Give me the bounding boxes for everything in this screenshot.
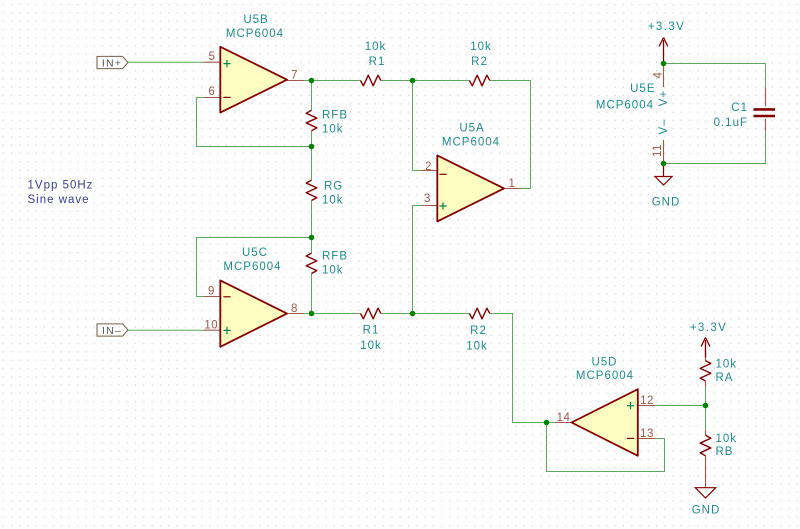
U5B plus input mark <box>223 60 230 67</box>
wire R1b to node B <box>381 313 413 315</box>
wire node A to R2 <box>413 80 470 82</box>
wire U5D feedback pin13 <box>547 423 665 472</box>
wire node8 to R1b <box>304 313 361 315</box>
wire node B to R2b <box>413 313 470 315</box>
svg-text:1Vpp 50Hz: 1Vpp 50Hz <box>28 180 94 192</box>
U5A minus input mark <box>439 173 446 175</box>
svg-text:U5D: U5D <box>591 357 617 369</box>
junction node7 <box>309 78 315 84</box>
RB bottom lead to GND <box>705 456 707 488</box>
power flag +3.3V at U5E <box>659 38 668 64</box>
resistor RFB lower <box>306 253 317 273</box>
resistor RB <box>700 435 711 455</box>
power flag +3.3V at RA <box>701 338 710 358</box>
ground symbol at U5E <box>655 164 672 186</box>
svg-text:R2: R2 <box>470 325 487 337</box>
junction RA-RB node <box>703 403 709 409</box>
wire U5D pin14 to node <box>547 422 556 424</box>
pin 3 stub <box>421 205 437 207</box>
svg-text:RG: RG <box>324 181 343 193</box>
svg-text:10k: 10k <box>360 340 382 352</box>
U5A plus input mark <box>439 202 446 209</box>
resistor RFB upper <box>306 110 317 130</box>
svg-text:IN+: IN+ <box>102 57 122 69</box>
svg-text:11: 11 <box>652 144 664 157</box>
wire U5A pin3 to node B <box>413 206 422 314</box>
junction V- node <box>661 161 667 167</box>
svg-text:10k: 10k <box>466 341 488 353</box>
pin 13 stub <box>638 438 655 440</box>
capacitor C1 <box>754 109 776 116</box>
junction node8 <box>309 311 315 317</box>
svg-text:R1: R1 <box>363 325 380 337</box>
junction U5D input node <box>544 420 550 426</box>
junction V+ node <box>661 61 667 67</box>
svg-text:10k: 10k <box>470 41 492 53</box>
svg-text:RB: RB <box>716 446 734 458</box>
wire U5D pin12 to RA RB node <box>655 405 706 407</box>
svg-text:6: 6 <box>208 86 215 98</box>
pin 1 stub <box>504 188 521 190</box>
svg-text:5: 5 <box>208 51 215 63</box>
svg-text:U5A: U5A <box>459 123 484 135</box>
junction node A <box>410 78 416 84</box>
wire C1 to V- loop <box>664 132 766 164</box>
svg-text:GND: GND <box>652 197 681 209</box>
svg-text:10k: 10k <box>716 433 738 445</box>
svg-text:10k: 10k <box>322 265 344 277</box>
svg-text:MCP6004: MCP6004 <box>576 370 634 382</box>
pin 2 stub <box>421 170 437 172</box>
svg-text:14: 14 <box>557 412 571 424</box>
svg-text:U5E: U5E <box>630 83 655 95</box>
wire RA bottom to node <box>705 387 707 406</box>
RA top lead <box>705 343 707 361</box>
pin 10 stub <box>204 329 220 331</box>
svg-text:4: 4 <box>653 71 665 78</box>
svg-text:IN–: IN– <box>102 325 122 337</box>
wire R2 to corner <box>490 81 531 189</box>
svg-text:MCP6004: MCP6004 <box>442 137 500 149</box>
svg-text:U5B: U5B <box>243 14 268 26</box>
wire U5B feedback pin6 <box>197 98 312 147</box>
svg-text:+3.3V: +3.3V <box>648 21 685 33</box>
svg-text:U5C: U5C <box>242 247 268 259</box>
wire node A to U5A pin2 <box>413 81 422 171</box>
svg-text:2: 2 <box>425 161 432 173</box>
svg-text:+3.3V: +3.3V <box>690 322 727 334</box>
junction RFB-RG <box>309 144 315 150</box>
pin 6 stub <box>204 97 220 99</box>
pin 9 stub <box>204 296 220 298</box>
U5C plus input mark <box>223 327 230 334</box>
resistor RA <box>700 361 711 381</box>
svg-text:9: 9 <box>208 286 215 298</box>
capacitor C1 pin stubs <box>765 88 767 132</box>
wire RFB to RG <box>311 131 313 180</box>
svg-text:R2: R2 <box>471 56 488 68</box>
svg-text:10: 10 <box>204 319 218 331</box>
svg-text:V–: V– <box>658 118 670 134</box>
wire U5E V+ loop <box>664 64 766 89</box>
pin 7 stub <box>287 80 304 82</box>
wire U5C feedback pin9 <box>197 238 312 297</box>
svg-text:10k: 10k <box>365 41 387 53</box>
pin 4 stub U5E <box>663 64 665 88</box>
op-amp U5B <box>220 47 287 113</box>
pin 5 stub <box>204 61 220 63</box>
svg-text:GND: GND <box>692 505 721 517</box>
resistor R2 top <box>469 75 489 86</box>
svg-text:13: 13 <box>640 428 654 440</box>
pin 12 stub <box>638 405 655 407</box>
svg-text:12: 12 <box>640 395 654 407</box>
wire IN+ to U5B pin5 <box>128 61 204 63</box>
op-amp U5D mirrored <box>572 389 638 456</box>
op-amp U5C <box>220 280 287 346</box>
svg-text:MCP6004: MCP6004 <box>596 100 654 112</box>
svg-text:RFB: RFB <box>322 251 348 263</box>
junction RG-RFB2 <box>309 235 315 241</box>
svg-text:10k: 10k <box>322 195 344 207</box>
pin 14 stub <box>555 422 572 424</box>
svg-text:RFB: RFB <box>322 110 348 122</box>
svg-text:0.1uF: 0.1uF <box>714 117 748 129</box>
resistor R2 bottom <box>469 308 489 319</box>
pin 8 stub <box>287 313 304 315</box>
svg-text:10k: 10k <box>716 358 738 370</box>
U5D minus input mark <box>627 437 634 439</box>
wire R2b to U5D input <box>490 314 547 423</box>
wire RFB2 to node8 <box>311 274 313 314</box>
U5C minus input mark <box>223 296 230 298</box>
svg-text:7: 7 <box>291 70 298 82</box>
svg-text:V+: V+ <box>658 90 670 106</box>
wire node7 to R1 <box>304 80 361 82</box>
resistor R1 top <box>361 75 381 86</box>
wire R1 to node A <box>381 80 413 82</box>
U5D plus input mark <box>627 402 634 409</box>
hierarchical label IN- <box>97 324 128 337</box>
svg-text:1: 1 <box>509 178 516 190</box>
wire node to RB top <box>705 406 707 431</box>
junction node B <box>410 311 416 317</box>
RB top stub <box>705 430 707 435</box>
svg-text:MCP6004: MCP6004 <box>223 261 281 273</box>
hierarchical label IN+ <box>97 56 128 69</box>
pin 11 stub U5E <box>663 140 665 164</box>
resistor R1 bottom <box>361 308 381 319</box>
svg-text:8: 8 <box>291 303 298 315</box>
resistor RG <box>306 180 317 200</box>
svg-text:MCP6004: MCP6004 <box>226 28 284 40</box>
U5B minus input mark <box>223 96 230 98</box>
wire RG to RFB2 <box>311 201 313 254</box>
wire rail node7 to RFB <box>311 81 313 111</box>
svg-text:R1: R1 <box>369 56 386 68</box>
svg-text:10k: 10k <box>322 124 344 136</box>
op-amp U5A <box>437 155 504 221</box>
svg-text:Sine wave: Sine wave <box>28 194 90 206</box>
svg-text:3: 3 <box>424 193 431 205</box>
svg-text:RA: RA <box>716 372 734 384</box>
ground symbol at RB <box>695 488 715 498</box>
wire IN- to U5C pin10 <box>128 329 204 331</box>
svg-text:C1: C1 <box>731 102 748 114</box>
RA bottom stub <box>705 381 707 387</box>
